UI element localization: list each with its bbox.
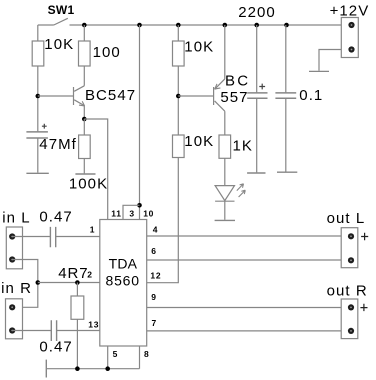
svg-text:1K: 1K [233, 137, 253, 154]
connector in R [6, 299, 23, 339]
svg-text:SW1: SW1 [48, 3, 75, 17]
svg-text:1: 1 [90, 225, 95, 235]
label + out R [360, 304, 367, 311]
connector out R [341, 299, 358, 339]
svg-text:0.1: 0.1 [299, 87, 323, 104]
resistor 10K (lower middle) [173, 135, 185, 158]
svg-text:10: 10 [143, 208, 154, 218]
capacitor 0.47 (R) [51, 320, 56, 341]
svg-text:4R7: 4R7 [58, 265, 88, 282]
wire top rail [70, 24, 342, 26]
wire pin 5 [107, 346, 109, 369]
svg-text:TDA: TDA [109, 255, 138, 271]
node pin5 bottom [105, 366, 110, 371]
transistor Q1 BC547 [74, 86, 85, 106]
svg-text:5: 5 [113, 349, 118, 359]
svg-text:8: 8 [144, 349, 149, 359]
svg-text:10K: 10K [184, 133, 214, 150]
op-amp U1 TDA8560 box [100, 220, 147, 347]
wire BC557 base [178, 95, 213, 97]
svg-text:8560: 8560 [106, 272, 140, 288]
node BC557 base [176, 94, 181, 99]
node top-rail/10K rail [176, 23, 181, 28]
wire pin 4 [147, 235, 342, 237]
wire pin 12 [147, 158, 179, 283]
resistor 4R7 [71, 283, 84, 369]
svg-text:6: 6 [151, 246, 156, 256]
svg-text:12: 12 [150, 271, 161, 281]
wire pin 8 [139, 346, 141, 369]
svg-text:BC547: BC547 [85, 87, 136, 104]
node top-rail/pin10 rail [137, 23, 142, 28]
node BC547 base [36, 94, 41, 99]
capacitor 47Mf [26, 124, 48, 173]
svg-text:10K: 10K [44, 36, 74, 53]
svg-text:in L: in L [2, 209, 30, 226]
LED D1 [215, 184, 245, 201]
wire pin 6 [147, 259, 342, 261]
ground 0.1 [277, 171, 297, 173]
ground +12V [309, 70, 329, 72]
resistor 100 [79, 41, 91, 66]
wire +12V ground branch [319, 50, 341, 71]
svg-text:100K: 100K [69, 176, 108, 193]
node pin3 branch [137, 203, 142, 208]
wire 10K rail middle [177, 66, 179, 135]
wire pin 2 [38, 282, 100, 284]
wire pin 3 branch [123, 205, 140, 219]
svg-text:out R: out R [327, 282, 368, 299]
svg-text:2200: 2200 [238, 4, 276, 21]
switch SW1 [38, 18, 68, 25]
wire BC547 emitter down [83, 106, 85, 119]
wire R100 to collector [83, 66, 85, 86]
wire in R bottom to cap [12, 330, 51, 332]
svg-text:in R: in R [1, 280, 32, 297]
capacitor 0.1 [275, 25, 296, 172]
node in junction [36, 280, 41, 285]
svg-text:BC: BC [225, 72, 250, 89]
svg-text:3: 3 [129, 208, 134, 218]
wire left rail top [37, 25, 39, 41]
ground 2200 [247, 172, 265, 174]
svg-text:9: 9 [151, 292, 156, 302]
wire pin 7 [147, 330, 342, 332]
capacitor 2200 [247, 25, 267, 172]
node top-rail/C0.1 [284, 23, 289, 28]
wire pin 1 [56, 236, 100, 238]
wire R100 top stub [83, 25, 85, 41]
wire 10K-2 top stub [177, 25, 179, 41]
wire left rail middle [37, 66, 39, 131]
svg-text:out L: out L [327, 210, 366, 227]
wire 1K to LED [224, 158, 226, 185]
ground bottom rail [45, 360, 47, 378]
svg-text:0.47: 0.47 [39, 338, 72, 355]
connector out L [341, 228, 358, 268]
wire pin10 rail [139, 25, 141, 220]
wire BC557 collector down [224, 111, 226, 135]
ground LED [215, 219, 235, 221]
resistor 10K (left) [32, 41, 44, 66]
svg-text:11: 11 [111, 208, 121, 218]
resistor 100K [79, 135, 91, 159]
node 4R7 bottom [75, 366, 80, 371]
svg-text:10K: 10K [184, 38, 214, 55]
svg-text:0.47: 0.47 [39, 208, 72, 225]
node top-rail/BC557 emitter [223, 23, 228, 28]
wire pin 11 [84, 119, 107, 220]
svg-text:47Mf: 47Mf [39, 136, 77, 153]
svg-text:7: 7 [152, 318, 157, 328]
wire pin 9 [147, 307, 342, 309]
ground 100K [75, 173, 95, 175]
svg-text:4: 4 [153, 225, 158, 235]
ground 47Mf [26, 172, 48, 174]
wire in L bottom / in R top junction rail [12, 260, 38, 308]
resistor 1K [219, 135, 231, 158]
wire LED to ground [224, 201, 226, 220]
wire bottom ground rail [46, 368, 139, 370]
connector in L [6, 227, 22, 269]
svg-text:13: 13 [88, 319, 99, 329]
label + out L [361, 233, 368, 240]
resistor 10K (upper middle) [173, 41, 185, 66]
connector +12V [341, 18, 358, 58]
capacitor 0.47 (L) [50, 227, 55, 247]
wire 100K bottom stub [83, 159, 85, 174]
node emitter/100K/pin11 [82, 117, 87, 122]
wire in L top to cap [12, 236, 50, 238]
node top-rail/R100 [82, 23, 87, 28]
wire BC547 base [38, 95, 74, 97]
svg-text:557: 557 [220, 89, 248, 106]
svg-text:100: 100 [93, 44, 121, 61]
wire pin 13 [57, 330, 100, 332]
node 4R7 top [75, 280, 80, 285]
wire 100K top stub [83, 119, 85, 135]
transistor Q2 BC557 [214, 79, 225, 111]
node top-rail/C2200 [254, 23, 259, 28]
wire BC557 emitter up [224, 25, 226, 79]
